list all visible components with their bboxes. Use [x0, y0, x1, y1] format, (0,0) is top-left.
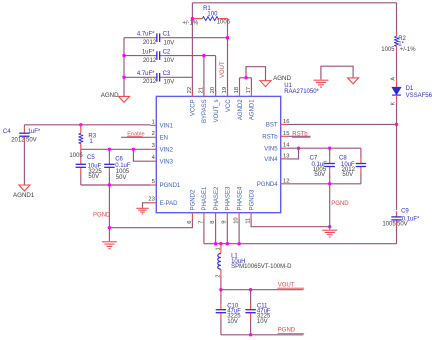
svg-text:PGND4: PGND4	[257, 182, 278, 188]
svg-text:PGND: PGND	[278, 328, 296, 334]
wire C2 row right to BYPASS and VOUT_s	[165, 55, 215, 57]
svg-text:10V: 10V	[164, 58, 175, 64]
svg-text:PGND: PGND	[93, 213, 111, 219]
svg-text:PHASE2: PHASE2	[214, 186, 220, 210]
wire C3 row left	[124, 76, 151, 78]
wire pin 13 branch up	[287, 148, 299, 159]
svg-text:5: 5	[152, 179, 155, 185]
resistor R3 leads	[80, 125, 82, 134]
svg-text:4: 4	[152, 155, 156, 161]
wire C3 row right to VCCP vertical	[165, 76, 192, 78]
wire VCC vertical pin 19	[227, 19, 229, 97]
svg-text:2012: 2012	[11, 138, 25, 144]
wire phase bus	[204, 243, 397, 245]
capacitor C9	[396, 211, 398, 217]
svg-text:23: 23	[148, 197, 154, 203]
junction dot C2 row at BYPASS	[202, 54, 205, 57]
svg-text:PGND: PGND	[331, 201, 349, 207]
wire PGND drop right	[329, 184, 331, 227]
wire PGND4 row pin 12 to C8 bottom	[287, 183, 361, 185]
svg-text:VIN4: VIN4	[264, 157, 278, 163]
junction dot BST on right rail	[395, 123, 398, 126]
svg-text:2012: 2012	[143, 58, 157, 64]
wire VIN5 row pin 14 to C8 top	[287, 147, 361, 149]
pin 2 EN lead	[150, 136, 156, 138]
junction dot pin 10 on phase bus	[237, 242, 240, 245]
svg-text:PHASE1: PHASE1	[202, 186, 208, 210]
junction dot C6 bottom	[108, 183, 111, 186]
pin 1 VIN1 lead	[150, 124, 156, 126]
resistor R2 leads	[396, 32, 398, 37]
pin 23 E-PAD lead	[150, 202, 156, 204]
wire C2 row left	[124, 55, 151, 57]
junction dot on bracket	[244, 76, 247, 79]
svg-text:AGND1: AGND1	[13, 192, 35, 199]
wire AGND2 pin 18 vertical	[239, 78, 241, 91]
wire pin 9 down	[226, 219, 228, 244]
svg-text:K: K	[390, 101, 396, 105]
pin 7 PHASE1 lead	[203, 213, 205, 219]
pin 6 PGND2 lead	[191, 213, 193, 219]
svg-text:D1: D1	[406, 86, 414, 92]
svg-text:PGND1: PGND1	[160, 183, 181, 189]
wire ground tie point bridge	[321, 66, 353, 79]
resistor R1 leads	[192, 18, 202, 20]
svg-text:VIN3: VIN3	[160, 159, 174, 165]
svg-text:VIN1: VIN1	[160, 124, 174, 130]
svg-text:SPM10065VT-100M-D: SPM10065VT-100M-D	[231, 264, 292, 270]
wire Enable stub to pin 2	[121, 136, 150, 138]
capacitor C7	[329, 158, 331, 164]
wire PGND drop below C6	[108, 185, 110, 241]
svg-text:AGND2: AGND2	[238, 99, 244, 120]
svg-text:10V: 10V	[257, 319, 268, 325]
pin 9 PHASE3 lead	[226, 213, 228, 219]
inductor L1	[220, 244, 222, 254]
svg-text:VOUT: VOUT	[220, 61, 226, 78]
svg-text:PGND3: PGND3	[249, 189, 255, 210]
svg-text:C9: C9	[401, 209, 409, 215]
svg-text:10V: 10V	[164, 40, 175, 46]
ground PGND striped at tie point	[313, 79, 328, 81]
svg-text:AGND: AGND	[101, 92, 119, 99]
svg-text:1: 1	[152, 119, 155, 125]
junction dot pin 6 wire joins PGND drop	[108, 226, 111, 229]
svg-text:VOUT_s: VOUT_s	[214, 99, 220, 122]
wire BYPASS vertical pin 21	[203, 56, 205, 97]
junction dot C2 row on AGND rail	[122, 54, 125, 57]
ground AGND triangle at tie point	[348, 78, 359, 84]
svg-text:A: A	[390, 77, 396, 81]
svg-text:PGND2: PGND2	[191, 189, 197, 210]
svg-text:C2: C2	[163, 50, 171, 56]
wire PGND row C5 C6 to pin 5	[81, 184, 151, 186]
wire VOUT row	[221, 289, 304, 291]
junction dot pin 13 joins VIN5 row	[297, 147, 300, 150]
pin 14 VIN5 lead	[281, 147, 287, 149]
ground AGND triangle near U1	[260, 81, 271, 87]
capacitor C10	[220, 304, 222, 310]
svg-text:2: 2	[152, 131, 155, 137]
svg-text:10V: 10V	[227, 319, 238, 325]
svg-text:50V: 50V	[342, 172, 353, 178]
wire bracket joining pins 17 and 18	[240, 77, 252, 79]
svg-text:10V: 10V	[164, 79, 175, 85]
svg-text:VIN2: VIN2	[160, 148, 174, 154]
junction dot C3 row on AGND rail	[122, 76, 125, 79]
wire VIN2 row from R3 to pin 3	[81, 148, 151, 150]
capacitor C6	[108, 159, 110, 165]
junction dot C7 bottom	[328, 182, 331, 185]
diode D1	[396, 81, 398, 88]
ground PGND striped at E-PAD	[136, 207, 148, 209]
pin 12 PGND4 lead	[281, 183, 287, 185]
capacitor C2	[151, 55, 157, 57]
pin 10 PHASE4 lead	[238, 213, 240, 219]
svg-text:3: 3	[152, 143, 155, 149]
svg-text:50V: 50V	[88, 174, 99, 180]
wire PGND bottom row	[221, 334, 304, 336]
capacitor C11	[250, 304, 252, 310]
capacitor C5	[80, 159, 82, 165]
junction dot C6 top on VIN2 row	[108, 148, 111, 151]
svg-text:4.7uF*: 4.7uF*	[137, 71, 155, 77]
pin 5 PGND1 lead	[150, 184, 156, 186]
junction dot R1 left on VCCP vertical	[191, 17, 194, 20]
svg-text:1: 1	[89, 139, 93, 145]
junction dot pin 11 wire joins PGND drop	[328, 225, 331, 228]
wire top horizontal to right rail	[192, 2, 396, 4]
resistor R1 body	[202, 17, 218, 21]
wire right rail below C9 down to phase bus	[396, 226, 398, 244]
svg-text:PHASE4: PHASE4	[237, 186, 243, 210]
svg-text:0.1uF: 0.1uF	[115, 163, 131, 169]
wire RSTb stub from pin 15	[287, 135, 311, 137]
junction dot L1 on phase bus	[219, 242, 222, 245]
svg-text:E-PAD: E-PAD	[160, 201, 179, 207]
wire right rail top segment	[396, 3, 398, 32]
wire AGND left vertical rail for C1-C3	[123, 38, 125, 97]
wire C4 down to AGND1	[23, 142, 25, 185]
svg-text:C6: C6	[115, 157, 123, 163]
ground PGND striped left	[102, 241, 117, 243]
svg-text:2012: 2012	[143, 40, 157, 46]
svg-text:4.7uF*: 4.7uF*	[137, 31, 155, 37]
junction dot R3 top on VIN rail	[79, 123, 82, 126]
svg-text:1uF*: 1uF*	[28, 129, 41, 135]
capacitor C4 branch	[23, 125, 25, 128]
wire pin 10 down	[238, 219, 240, 244]
wire right rail between D1 and C9	[396, 102, 398, 210]
svg-text:50V: 50V	[397, 222, 408, 228]
capacitor C8	[360, 158, 362, 164]
junction dot L1 at VOUT row	[219, 288, 222, 291]
svg-text:BYPASS: BYPASS	[202, 99, 208, 123]
svg-text:C7: C7	[310, 156, 318, 162]
svg-text:BST: BST	[266, 123, 278, 129]
resistor R2 body	[394, 36, 398, 46]
svg-text:EN: EN	[160, 136, 168, 142]
svg-text:17: 17	[246, 87, 252, 93]
svg-text:1005: 1005	[217, 20, 231, 26]
wire pin 7 down	[203, 219, 205, 244]
svg-text:C4: C4	[3, 129, 11, 135]
pin 15 RSTb lead	[281, 135, 287, 137]
svg-text:C1: C1	[163, 32, 171, 38]
svg-text:VOUT: VOUT	[278, 282, 295, 288]
svg-text:1: 1	[215, 247, 221, 250]
pin 13 VIN4 lead	[281, 158, 287, 160]
wire E-PAD to ground	[143, 203, 151, 208]
ground PGND striped right	[329, 227, 331, 230]
capacitor C4	[23, 128, 25, 134]
svg-text:100: 100	[207, 12, 218, 18]
svg-text:1005: 1005	[381, 47, 395, 53]
wire C1 row right to VCC vertical	[165, 37, 227, 39]
wire VOUT_s vertical pin 20	[215, 56, 217, 97]
wire pin 11 PGND3 down and right	[251, 219, 330, 227]
svg-text:AGND1: AGND1	[250, 99, 256, 120]
svg-text:50V: 50V	[26, 138, 37, 144]
junction dot pin 8 on phase bus	[214, 242, 217, 245]
junction dot pin 4 branch on VIN2 row	[132, 148, 135, 151]
svg-text:18: 18	[234, 87, 240, 93]
junction dot C11 top	[249, 288, 252, 291]
svg-text:+/-1%: +/-1%	[400, 47, 417, 53]
resistor R3 body	[79, 133, 83, 143]
junction dot C11 bottom	[249, 333, 252, 336]
junction dot C1 row on VCC vertical	[226, 36, 229, 39]
capacitor C1	[151, 37, 157, 39]
svg-text:1uF*: 1uF*	[142, 49, 155, 55]
svg-text:19: 19	[222, 87, 228, 93]
svg-text:RSTb: RSTb	[262, 135, 278, 141]
wire C1 row left	[124, 37, 151, 39]
pin 17 AGND1 lead	[250, 91, 252, 97]
pin 3 VIN2 lead	[150, 148, 156, 150]
wire VIN top rail C4 to pin 1	[24, 124, 150, 126]
ground AGND1 triangle	[19, 185, 30, 191]
wire from bracket up to AGND symbol	[246, 67, 266, 81]
ground AGND triangle below C1-C3 rail	[119, 96, 130, 102]
wire VCCP vertical pin 22	[191, 3, 193, 97]
pin 20 VOUT_s lead	[215, 91, 217, 97]
svg-text:PHASE3: PHASE3	[226, 186, 232, 210]
svg-text:C8: C8	[339, 156, 347, 162]
pin 8 PHASE2 lead	[215, 213, 217, 219]
wire L1 to VOUT node	[220, 276, 222, 289]
svg-text:VCCP: VCCP	[191, 99, 197, 116]
svg-text:21: 21	[198, 87, 204, 93]
svg-text:2012: 2012	[143, 79, 157, 85]
capacitor C10 branch	[220, 290, 222, 304]
pin 16 BST lead	[281, 123, 287, 125]
wire BST pin 16 to right rail	[287, 123, 397, 125]
svg-text:50V: 50V	[116, 175, 127, 181]
svg-text:+/-1%: +/-1%	[182, 20, 199, 26]
pin 19 VCC lead	[227, 91, 229, 97]
pin 11 PGND3 lead	[250, 213, 252, 219]
svg-text:C5: C5	[87, 155, 95, 161]
svg-text:RAA271050*: RAA271050*	[284, 89, 319, 95]
capacitor C3	[151, 76, 157, 78]
svg-text:50V: 50V	[314, 172, 325, 178]
pin 4 VIN3 lead	[150, 160, 156, 162]
svg-text:VIN5: VIN5	[264, 146, 278, 152]
capacitor C11 branch	[250, 290, 252, 304]
svg-text:VCC: VCC	[226, 99, 232, 112]
svg-text:1005: 1005	[382, 222, 396, 228]
pin 21 BYPASS lead	[203, 91, 205, 97]
pin 18 AGND2 lead	[239, 91, 241, 97]
junction dot pin 9 on phase bus	[226, 242, 229, 245]
junction dot C7 top	[328, 147, 331, 150]
svg-text:1005: 1005	[116, 169, 130, 175]
svg-text:VSSAF56: VSSAF56	[406, 93, 432, 99]
svg-text:20: 20	[210, 87, 216, 93]
op-amp U1 RAA271050 body	[156, 96, 280, 212]
svg-text:22: 22	[187, 87, 193, 93]
svg-text:AGND: AGND	[273, 75, 291, 82]
wire AGND1 pin 17 vertical	[250, 78, 252, 91]
svg-text:C3: C3	[163, 71, 171, 77]
wire pin 8 down	[215, 219, 217, 244]
wire pin 4 branch	[133, 149, 150, 161]
wire pin 6 PGND2 down and left	[109, 219, 192, 228]
wire right rail between R2 and D1	[396, 52, 398, 80]
pin 22 VCCP lead	[191, 91, 193, 97]
